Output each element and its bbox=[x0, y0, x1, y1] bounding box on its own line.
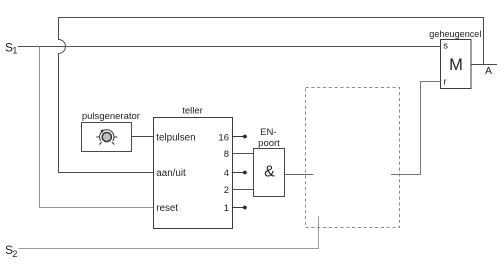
svg-text:A: A bbox=[485, 65, 492, 77]
svg-text:8: 8 bbox=[224, 149, 229, 160]
svg-text:poort: poort bbox=[258, 138, 280, 149]
svg-text:teller: teller bbox=[182, 106, 203, 117]
svg-text:aan/uit: aan/uit bbox=[156, 168, 186, 179]
svg-text:pulsgenerator: pulsgenerator bbox=[82, 111, 140, 122]
svg-text:&: & bbox=[264, 164, 275, 181]
svg-text:1: 1 bbox=[224, 203, 229, 214]
svg-text:telpulsen: telpulsen bbox=[156, 132, 195, 143]
svg-text:4: 4 bbox=[224, 168, 229, 179]
svg-text:M: M bbox=[449, 56, 463, 74]
svg-text:1: 1 bbox=[12, 46, 17, 56]
svg-text:16: 16 bbox=[218, 132, 229, 143]
svg-text:2: 2 bbox=[224, 185, 229, 196]
svg-text:geheugencel: geheugencel bbox=[429, 29, 481, 39]
svg-text:EN-: EN- bbox=[260, 127, 276, 138]
svg-text:reset: reset bbox=[156, 203, 178, 214]
svg-text:2: 2 bbox=[12, 249, 17, 259]
svg-text:s: s bbox=[443, 41, 448, 52]
svg-text:r: r bbox=[444, 77, 447, 88]
